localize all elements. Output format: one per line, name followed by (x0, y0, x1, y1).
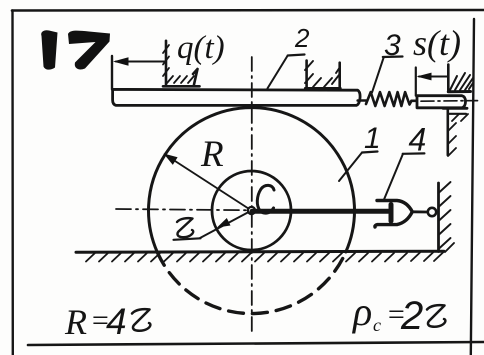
ground line (76, 251, 444, 252)
block right guide (hatched) (305, 61, 340, 89)
q(t) reference line at bar end (111, 56, 113, 89)
svg-text:q(t): q(t) (177, 30, 225, 66)
frame right border (471, 19, 474, 355)
r radius arrow (200, 211, 252, 239)
upper wall hatching (450, 73, 473, 90)
pin circle (428, 208, 436, 216)
piston centerline dash-dot (421, 100, 478, 103)
svg-text:R: R (64, 302, 87, 342)
frame bottom border (28, 342, 484, 345)
svg-text:R: R (200, 134, 224, 175)
right wall for fork (437, 183, 440, 252)
svg-text:4: 4 (409, 122, 427, 158)
block left guide (hatched, q side) (163, 41, 200, 87)
slot bottom edge (443, 107, 467, 110)
handwritten r glyph in R=4r (132, 309, 150, 331)
spring 3 left stub (358, 99, 366, 102)
right guide hatching (305, 61, 340, 87)
piston head of rod (389, 205, 394, 222)
center marker of C (248, 207, 255, 214)
label 4 underline (403, 152, 425, 155)
upper wall above piston (447, 65, 450, 92)
label 1 underline (362, 152, 378, 153)
svg-text:s(t): s(t) (413, 23, 461, 63)
left guide hatching (163, 45, 194, 83)
label 2 underline (288, 55, 305, 56)
problem number 17 digit 7 (68, 31, 110, 70)
inner circle radius r (212, 171, 291, 250)
label C (script) (257, 185, 274, 213)
label r (handwritten z-like glyph) (177, 218, 193, 237)
disk 1 solid upper arc (148, 108, 354, 252)
ground hatching (86, 253, 443, 262)
label 2 leader (267, 56, 287, 89)
frame left border (11, 11, 14, 355)
fork link (412, 210, 427, 213)
piston of kinematic drive s(t) (417, 96, 466, 108)
bar 2 (beam on top of disk) (113, 89, 360, 105)
vertical dash-dot centerline through disk (251, 57, 253, 334)
lower wall below piston (446, 108, 449, 155)
R radius arrow (165, 155, 252, 211)
horizontal dash-dot centerline left of disk (116, 209, 254, 210)
lower wall step (448, 113, 466, 115)
label 3 underline (383, 55, 403, 58)
rod from center C (252, 209, 388, 214)
label r underline (174, 238, 201, 240)
label 1 leader (339, 153, 362, 182)
q(t) arrow (116, 61, 166, 63)
disk 1 dashed lower arc (157, 252, 346, 314)
spring 3 right stub (412, 100, 418, 103)
label 3 leader (372, 57, 384, 93)
right wall hatching (439, 182, 455, 252)
svg-text:ρ: ρ (351, 289, 372, 334)
s(t) arrow from wall (419, 76, 448, 78)
svg-text:c: c (373, 315, 381, 335)
frame top border (12, 9, 484, 12)
label 4 leader (384, 154, 403, 200)
svg-text:2: 2 (400, 294, 423, 338)
s(t) reference line (415, 68, 417, 96)
problem number 17 digit 1 (41, 30, 57, 69)
svg-text:4: 4 (106, 301, 127, 342)
handwritten r glyph in rho_c=2r (427, 305, 445, 327)
slot top edge (448, 90, 470, 93)
spring 3 zigzag (366, 92, 412, 106)
svg-text:2: 2 (294, 23, 310, 53)
svg-text:1: 1 (364, 122, 381, 155)
lower wall hatching (448, 114, 468, 156)
fork 4 (clevis) (375, 201, 412, 228)
